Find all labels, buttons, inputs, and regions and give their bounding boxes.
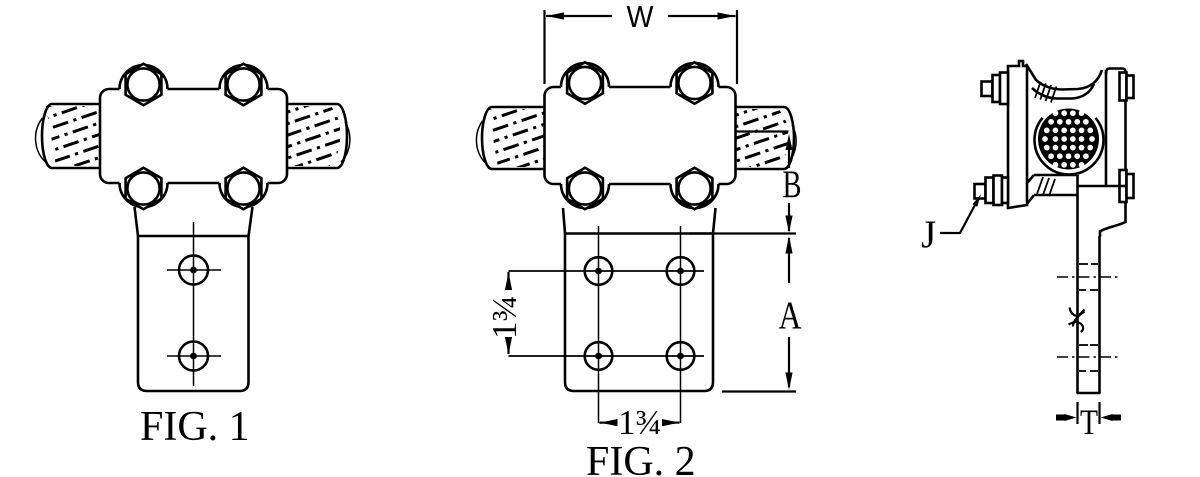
- hatching on right conductor (FIG.2): [734, 95, 795, 185]
- neck left side (FIG.2): [563, 208, 565, 234]
- side view: right plate inner edge: [1105, 70, 1108, 186]
- break centerline upper (dash-dot): [1057, 276, 1119, 278]
- bolt hex head 1 (FIG.2): [567, 62, 603, 103]
- side view: top-right bolt washer: [1120, 73, 1134, 101]
- hole column centerline left (FIG.2): [598, 226, 600, 423]
- clamp body (FIG.1): [100, 89, 287, 183]
- pad hole 4 (FIG.2): [667, 342, 695, 370]
- svg-text:1¾: 1¾: [618, 403, 662, 442]
- leader line for J: [940, 194, 981, 233]
- hole row line top (FIG.2): [509, 270, 705, 272]
- side view: lower casting shelf: [1034, 175, 1126, 195]
- svg-text:T: T: [1080, 402, 1098, 442]
- side view: hatch marks upper fillet: [1035, 82, 1056, 103]
- dimension W extension line left: [543, 10, 545, 84]
- extension line pad top (A/B): [690, 232, 796, 234]
- dimension W line right + arrow: [668, 12, 736, 19]
- svg-text:A: A: [779, 294, 802, 337]
- side view: upper casting arm top edge: [1026, 64, 1102, 90]
- svg-text:W: W: [627, 0, 655, 34]
- side view: lower-left fillet: [1027, 175, 1034, 204]
- side view: tongue bottom edge: [1077, 392, 1101, 395]
- dimension 1-3/4 left: line + arrows: [505, 272, 512, 355]
- bolt ear lugs (FIG.2): [561, 63, 609, 92]
- side view: saddle ring around conductor: [1034, 105, 1105, 176]
- neck right side (FIG.1): [249, 207, 253, 236]
- conductor right segment (FIG.2): [732, 107, 797, 169]
- extension line conductor centerline (B): [737, 130, 789, 132]
- dimension W extension line right: [736, 10, 738, 84]
- clamp body (FIG.2): [545, 87, 736, 184]
- break centerline lower (dash-dot): [1057, 356, 1119, 358]
- break tick upper pair: [1079, 264, 1098, 290]
- side view: bottom-left bolt head: [975, 176, 1009, 206]
- side view: bottom-right bolt washer: [1120, 170, 1134, 202]
- side view: right plate: [1094, 69, 1126, 237]
- bolt hex head 3 (FIG.2): [567, 168, 603, 209]
- conductor left segment (FIG.1): [36, 104, 104, 168]
- svg-text:1¾: 1¾: [485, 295, 524, 339]
- pad hole 1 (FIG.1): [167, 256, 221, 285]
- pad hole 2 (FIG.1): [167, 342, 221, 371]
- svg-text:J: J: [921, 213, 936, 256]
- pad hole 3 (FIG.2): [585, 342, 613, 370]
- svg-text:FIG. 1: FIG. 1: [140, 404, 250, 450]
- bolt hex head 4 (FIG.2): [677, 168, 713, 209]
- terminal pad (FIG.2): [565, 234, 713, 392]
- hole column centerline right (FIG.2): [680, 226, 682, 423]
- bolt hex head 2 (FIG.2): [677, 62, 713, 103]
- dimension W line left + arrow: [546, 12, 612, 19]
- pad hole 1 (FIG.2): [585, 257, 613, 285]
- pad hole 2 (FIG.2): [667, 257, 695, 285]
- side view: top-left bolt head: [982, 73, 1009, 105]
- hatching on left conductor (FIG.2): [482, 89, 547, 191]
- hole row line bottom (FIG.2): [509, 355, 705, 357]
- break tick lower pair: [1079, 345, 1098, 371]
- bolt hex head 3 (FIG.1): [126, 168, 162, 209]
- side view: upper casting arm bottom edge: [1032, 84, 1094, 99]
- T dimension arrows: [1056, 414, 1121, 421]
- dimension 1-3/4 bottom: arrows: [600, 419, 680, 426]
- side view: keeper plate (left): [1008, 61, 1027, 208]
- conductor left segment (FIG.2): [476, 107, 548, 169]
- bolt hex head 1 (FIG.1): [126, 64, 162, 105]
- hatching on right conductor (FIG.1): [285, 92, 347, 194]
- conductor right segment (FIG.1): [283, 104, 350, 168]
- neck left side (FIG.1): [135, 207, 139, 236]
- bolt hex head 4 (FIG.1): [226, 168, 262, 209]
- side view: tongue right edge: [1098, 236, 1101, 393]
- T extension ticks: [1078, 402, 1100, 424]
- side view: hatch marks lower fillet: [1037, 177, 1055, 196]
- dimension B lower arrow: [785, 203, 792, 233]
- svg-text:FIG. 2: FIG. 2: [586, 439, 696, 477]
- dimension B upper arrow: [786, 134, 793, 168]
- hatching on left conductor (FIG.1): [42, 88, 102, 189]
- bolt ear lugs (FIG.1): [120, 65, 168, 94]
- break squiggle: [1069, 308, 1085, 333]
- dimension A upper arrow: [785, 236, 792, 283]
- side view: conductor cross-section (stranded): [1038, 109, 1099, 170]
- terminal pad (FIG.1): [138, 236, 249, 391]
- svg-text:B: B: [783, 163, 802, 206]
- dimension A lower arrow: [785, 337, 792, 390]
- side view: tongue left edge: [1076, 175, 1079, 393]
- bolt hex head 2 (FIG.1): [226, 64, 262, 105]
- neck right side (FIG.2): [713, 208, 716, 234]
- pad vertical centerline (FIG.1): [193, 222, 195, 386]
- extension line pad bottom (A): [722, 390, 796, 392]
